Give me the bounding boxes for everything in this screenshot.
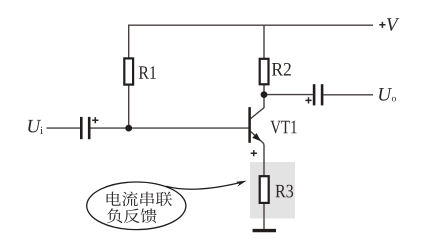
transistor VT1 emitter arrowhead [252, 133, 261, 141]
callout arrowhead [236, 181, 246, 187]
label Uo subscript o [392, 97, 396, 102]
label Ui subscript i [40, 127, 43, 134]
emitter polarity + [251, 150, 257, 156]
wire: rail down to R1 [128, 25, 130, 59]
resistor R1 [124, 58, 133, 84]
wire: collector node to VT1 collector [251, 95, 265, 119]
callout arrow curve [166, 183, 240, 189]
wire: C1 to base node [90, 127, 129, 129]
wire: +V top rail [128, 24, 373, 26]
label R3 [276, 185, 294, 198]
label V of +V [387, 18, 399, 31]
wire: C2 to Uo [323, 94, 373, 96]
callout text line1 电流串联 [107, 192, 172, 207]
wire: base node to VT1 base [129, 127, 249, 129]
plus of +V [379, 22, 385, 28]
node: base junction dot [125, 125, 132, 132]
wire: R1 bottom to base node [128, 85, 130, 128]
node: collector junction dot [261, 91, 268, 98]
wire: Ui input lead [47, 127, 81, 129]
C2 polarity + [305, 97, 311, 103]
wire: rail down to R2 [263, 25, 265, 59]
wire: collector node to C2 [264, 94, 313, 96]
capacitor C1 (input) plates [81, 117, 89, 139]
ground bar [253, 229, 276, 232]
label VT1 [270, 121, 296, 134]
highlight box around R3 [250, 162, 295, 219]
label Uo U [379, 88, 392, 101]
wire: R2 bottom to collector node [263, 84, 265, 94]
resistor R2 [260, 59, 269, 85]
callout ellipse [87, 182, 186, 230]
transistor VT1 base bar [248, 107, 251, 143]
wire: VT1 emitter lead [251, 131, 265, 176]
wire: R3 bottom to ground [263, 203, 265, 229]
resistor R3 [260, 176, 269, 203]
capacitor C2 (output) plates [314, 84, 322, 105]
label Ui U [28, 120, 41, 133]
label R1 [139, 66, 156, 79]
callout text line2 负反馈 [107, 208, 157, 223]
label R2 [272, 63, 291, 76]
C1 polarity + [92, 117, 98, 123]
